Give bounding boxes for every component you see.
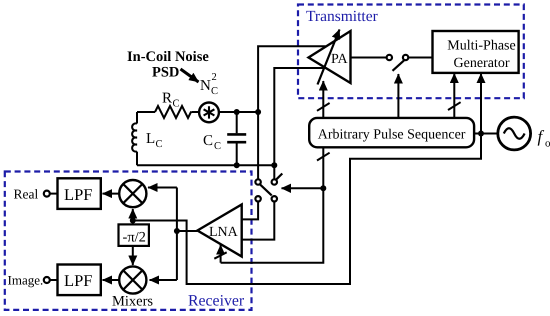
LPF2 box	[58, 265, 101, 296]
label CC	[203, 133, 221, 152]
TX switch control from APS	[397, 74, 399, 118]
LNA U2	[197, 205, 241, 257]
wire APS to MPG phase bus	[448, 74, 461, 118]
svg-text:N: N	[200, 78, 211, 94]
svg-text:C: C	[203, 133, 213, 149]
label fo	[538, 127, 550, 150]
oscillator fo	[498, 117, 531, 150]
terminal Real	[14, 187, 58, 202]
svg-text:Mixers: Mixers	[112, 294, 153, 310]
wire PA output	[351, 57, 387, 59]
wire LNA output to mixer bus	[177, 230, 198, 232]
PA U1	[309, 31, 351, 83]
wire LO into mixer1	[132, 209, 134, 221]
wire mixer1 to LPF1	[103, 193, 120, 195]
svg-text:Arbitrary Pulse Sequencer: Arbitrary Pulse Sequencer	[318, 128, 466, 143]
node LNA output junction	[174, 228, 180, 234]
wire mixer feed bus	[176, 188, 178, 281]
PA gain control from APS	[317, 81, 330, 118]
wire mixer2 to LPF2	[103, 279, 120, 281]
svg-text:Transmitter: Transmitter	[306, 8, 379, 25]
svg-text:Generator: Generator	[454, 56, 510, 71]
noise source NC2	[199, 103, 219, 123]
wire arrow to T/R switch	[281, 184, 323, 193]
label LC	[146, 131, 163, 150]
LNA gain control arrow	[214, 245, 226, 263]
svg-text:C: C	[214, 141, 221, 152]
transmitter dashed box	[298, 5, 524, 99]
wire switch to LNA input2	[242, 202, 275, 240]
svg-text:Real: Real	[14, 187, 39, 202]
svg-text:Receiver: Receiver	[188, 293, 245, 310]
receiver dashed box	[5, 172, 252, 310]
label NC2	[200, 72, 218, 97]
svg-text:-π/2: -π/2	[123, 230, 146, 246]
wire PA output1 to coil	[258, 46, 326, 179]
wire coil top	[137, 111, 258, 113]
node mixer1 LO junction	[130, 218, 136, 224]
svg-text:R: R	[162, 91, 172, 107]
label In-Coil Noise PSD	[127, 49, 209, 81]
svg-text:C: C	[211, 86, 218, 97]
wire coil bottom	[137, 164, 274, 166]
wire LO distribution	[135, 134, 481, 285]
svg-text:f: f	[538, 127, 545, 146]
LPF1 box	[58, 178, 101, 209]
resistor RC	[155, 106, 191, 118]
svg-text:2: 2	[212, 72, 217, 83]
wire into mixer1	[148, 187, 177, 189]
arbitrary pulse sequencer box	[309, 118, 474, 147]
label Mixers	[112, 294, 153, 310]
svg-text:C: C	[173, 99, 180, 110]
svg-text:LPF: LPF	[64, 271, 92, 290]
PA gain arrow	[318, 30, 340, 85]
svg-text:Image.: Image.	[8, 273, 44, 288]
node coil-bottom junction	[234, 162, 278, 168]
wire phase shifter to mixer2	[132, 246, 134, 265]
mixer M2	[119, 266, 146, 293]
T/R switch lever	[260, 174, 282, 196]
label RC	[162, 91, 180, 110]
wire T/R control from APS	[221, 147, 330, 262]
svg-text:LPF: LPF	[64, 185, 92, 204]
phase shifter box	[119, 221, 149, 246]
multi-phase generator box	[433, 31, 519, 73]
transmitter label	[306, 8, 379, 25]
node fo junction	[478, 131, 484, 137]
inductor LC	[132, 112, 137, 165]
terminal Image	[8, 273, 58, 288]
wire PA output2 to coil	[274, 68, 326, 179]
svg-text:PSD: PSD	[152, 65, 179, 81]
svg-text:PA: PA	[331, 52, 349, 67]
mixer M1	[119, 180, 146, 207]
wire switch to MPG	[408, 57, 432, 59]
wire fo to MPG	[480, 74, 482, 134]
svg-text:C: C	[156, 139, 163, 150]
svg-text:o: o	[545, 138, 550, 150]
PSD pointer arrow	[181, 69, 199, 82]
node coil-top junction	[234, 109, 261, 115]
svg-text:Multi-Phase: Multi-Phase	[447, 39, 515, 54]
capacitor CC	[227, 112, 246, 165]
T/R switch contacts	[255, 179, 277, 201]
receiver label	[188, 293, 245, 310]
TX switch	[387, 55, 409, 71]
node T/R control junction	[320, 185, 326, 191]
svg-text:In-Coil Noise: In-Coil Noise	[127, 49, 209, 65]
wire into mixer2	[150, 279, 177, 281]
svg-text:L: L	[146, 131, 155, 147]
svg-text:LNA: LNA	[209, 225, 239, 240]
wire APS to fo source	[474, 133, 498, 135]
wire switch to LNA input1	[242, 202, 258, 220]
